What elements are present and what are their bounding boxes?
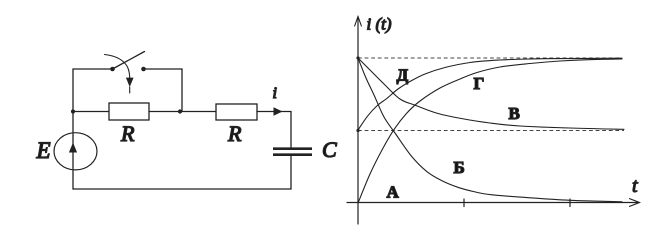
source E arrowhead (69, 143, 77, 153)
axis t horizontal (347, 202, 638, 204)
axis t tick 2 (569, 199, 571, 207)
wire left vertical upper (72, 69, 74, 112)
svg-text:C: C (322, 137, 337, 162)
svg-text:В: В (509, 104, 520, 123)
curve G rise from origin (358, 59, 622, 203)
wire main left segment (73, 111, 109, 113)
wire top switch branch left (73, 68, 113, 70)
svg-text:i (t): i (t) (367, 15, 392, 34)
switch S blade (113, 52, 145, 70)
resistor R1 body (109, 103, 149, 120)
svg-text:Г: Г (474, 74, 485, 93)
curve B decay to zero (358, 58, 622, 202)
wire right vertical of switch branch (181, 69, 183, 112)
node start point top (356, 56, 359, 59)
curve D rise from middle level (358, 58, 622, 130)
switch contact dot left (110, 67, 115, 72)
curve V decay to middle asymptote (358, 58, 624, 129)
wire main middle segment (149, 111, 216, 113)
node junction middle (178, 109, 182, 113)
capacitor C top plate (273, 147, 312, 150)
wire top switch branch right (144, 68, 183, 70)
dashed asymptote top (358, 57, 622, 59)
node junction left (71, 109, 75, 113)
svg-text:А: А (387, 183, 400, 202)
axis i(t) arrowhead (355, 17, 362, 27)
switch arrow tail (129, 87, 131, 93)
switch closing arrow arc (105, 55, 130, 80)
wire main right segment (257, 111, 291, 113)
source E circle (54, 133, 97, 170)
current i arrowhead (274, 107, 283, 116)
wire bottom (73, 188, 291, 190)
capacitor C bottom plate (273, 153, 312, 156)
wire right vertical to capacitor (290, 112, 292, 149)
svg-text:E: E (36, 138, 51, 163)
resistor R2 body (216, 104, 257, 120)
dashed asymptote middle (358, 130, 624, 132)
wire source to bottom (72, 170, 74, 189)
axis i(t) vertical (357, 17, 359, 224)
wire below capacitor (290, 156, 292, 189)
axis t tick 1 (463, 199, 465, 207)
svg-text:t: t (632, 175, 638, 197)
source E arrow shaft (72, 134, 74, 169)
wire from node down to source (72, 112, 74, 134)
node start point middle (356, 129, 359, 132)
svg-text:R: R (227, 121, 242, 146)
switch closing arrowhead (126, 78, 134, 87)
svg-text:i: i (273, 85, 277, 102)
axis t arrowhead (630, 199, 640, 207)
svg-text:Д: Д (397, 66, 409, 85)
switch contact dot right (141, 67, 146, 72)
svg-text:R: R (120, 121, 135, 146)
svg-text:Б: Б (454, 158, 465, 177)
